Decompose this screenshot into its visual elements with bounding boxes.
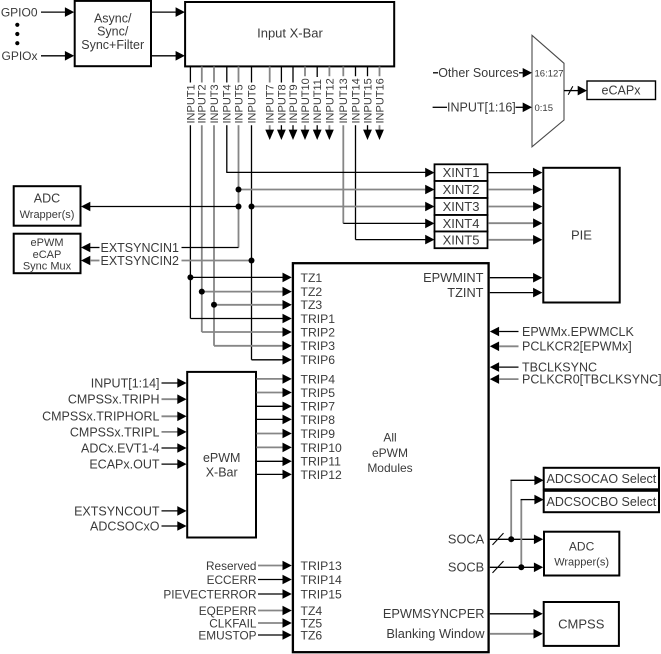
- pin label TZ4 inside ePWM box: [301, 604, 323, 618]
- svg-text:INPUT11: INPUT11: [312, 79, 324, 123]
- box eCAPx: [587, 81, 656, 100]
- svg-text:EXTSYNCIN2: EXTSYNCIN2: [101, 254, 180, 268]
- box ePWM/eCAP Sync Mux: [14, 234, 81, 274]
- svg-text:GPIOx: GPIOx: [1, 49, 37, 63]
- wire PIEVECTERROR into ePWM box: [163, 587, 291, 601]
- pin label SOCA: [448, 532, 485, 547]
- wire EPWMSYNCPER to CMPSS: [490, 609, 543, 619]
- wire ADC wrapper trigger from INPUT5: [81, 202, 239, 212]
- wire INPUT15 stub with down arrow: [362, 67, 374, 141]
- pin label TRIP10 inside ePWM box: [301, 441, 343, 455]
- node junction INPUT5/ADC trigger: [236, 204, 242, 210]
- svg-text:XINT5: XINT5: [443, 232, 480, 247]
- wire INPUT5 to XINT2: [239, 185, 435, 195]
- box ADCSOCBO Select: [544, 491, 659, 512]
- svg-text:INPUT6: INPUT6: [246, 84, 258, 123]
- svg-text:Async/: Async/: [94, 12, 132, 26]
- wire INPUT3 vertical from Input X-Bar: [209, 67, 221, 346]
- svg-text:EPWMSYNCPER: EPWMSYNCPER: [383, 606, 485, 621]
- wire TRIP1 from INPUT1: [190, 314, 291, 324]
- svg-text:X-Bar: X-Bar: [206, 466, 238, 480]
- svg-text:CMPSS: CMPSS: [558, 616, 605, 631]
- wire CMPSSx.TRIPHORL into ePWM X-Bar: [42, 410, 186, 424]
- pin label TZ6 inside ePWM box: [301, 628, 323, 642]
- svg-text:CMPSSx.TRIPHORL: CMPSSx.TRIPHORL: [42, 410, 159, 424]
- svg-text:ePWM: ePWM: [372, 446, 408, 460]
- wire CMPSSx.TRIPL into ePWM X-Bar: [70, 425, 187, 439]
- box ePWM X-Bar: [187, 372, 256, 538]
- svg-text:GPIO0: GPIO0: [1, 5, 38, 19]
- pin label TZ3 inside ePWM box: [301, 298, 323, 312]
- pin label TRIP8 inside ePWM box: [301, 413, 336, 427]
- wire Reserved into ePWM box: [206, 559, 292, 573]
- svg-text:Blanking Window: Blanking Window: [386, 626, 485, 641]
- svg-text:TRIP12: TRIP12: [301, 468, 343, 482]
- box XINT5: [435, 232, 488, 249]
- wire INPUT4 to XINT1: [226, 168, 434, 178]
- svg-text:XINT4: XINT4: [443, 216, 480, 231]
- svg-text:eCAP: eCAP: [33, 249, 62, 261]
- wire INPUT4 vertical from Input X-Bar: [222, 67, 234, 173]
- box XINT4: [435, 215, 488, 232]
- svg-text:ADCSOCAO Select: ADCSOCAO Select: [547, 472, 657, 486]
- svg-text:XINT1: XINT1: [443, 165, 480, 180]
- pin label TRIP6 inside ePWM box: [301, 353, 336, 367]
- box XINT2: [435, 181, 488, 198]
- svg-text:SOCB: SOCB: [448, 560, 484, 575]
- wire XINT3 to PIE: [488, 202, 542, 212]
- node junction INPUT3/TZ3: [211, 302, 217, 308]
- svg-text:INPUT13: INPUT13: [338, 78, 350, 123]
- svg-text:XINT3: XINT3: [443, 199, 480, 214]
- svg-text:ADC: ADC: [34, 192, 60, 206]
- svg-text:INPUT10: INPUT10: [300, 78, 312, 123]
- wire EQEPERR into ePWM box: [199, 604, 292, 618]
- svg-text:TRIP7: TRIP7: [301, 400, 336, 414]
- wire TZ1 from INPUT1: [190, 273, 291, 283]
- pin label Blanking Window: [386, 626, 485, 641]
- box ADC Wrapper(s) left: [14, 186, 81, 226]
- pin label TRIP13 inside ePWM box: [301, 559, 343, 573]
- wire INPUT2 vertical from Input X-Bar: [197, 67, 209, 333]
- svg-text:TRIP1: TRIP1: [301, 312, 336, 326]
- svg-text:TRIP2: TRIP2: [301, 325, 336, 339]
- svg-text:Wrapper(s): Wrapper(s): [20, 209, 75, 221]
- svg-text:EXTSYNCIN1: EXTSYNCIN1: [101, 241, 180, 255]
- svg-text:TRIP8: TRIP8: [301, 413, 336, 427]
- svg-text:PIE: PIE: [571, 227, 592, 242]
- wire INPUT[1:16] into mux: [433, 101, 532, 115]
- svg-text:TRIP5: TRIP5: [301, 386, 336, 400]
- node junction INPUT6/XINT3: [249, 204, 255, 210]
- svg-text:TRIP14: TRIP14: [301, 573, 343, 587]
- svg-text:Sync Mux: Sync Mux: [23, 261, 72, 273]
- wire SOCB to ADC wrapper with bus slash: [490, 561, 543, 573]
- wire TRIP3 from INPUT3: [214, 341, 292, 351]
- svg-text:eCAPx: eCAPx: [602, 84, 642, 98]
- wire INPUT11 stub with down arrow: [312, 67, 324, 141]
- wire TRIP2 from INPUT2: [202, 327, 292, 337]
- node junction INPUT2/TZ2: [199, 289, 205, 295]
- box PIE: [543, 168, 619, 303]
- wire XINT4 to PIE: [488, 218, 542, 228]
- svg-text:TRIP10: TRIP10: [301, 441, 343, 455]
- svg-text:Sync+Filter: Sync+Filter: [81, 38, 144, 52]
- wire INPUT7 stub with down arrow: [265, 67, 277, 141]
- svg-text:INPUT[1:14]: INPUT[1:14]: [91, 376, 160, 390]
- svg-text:Sync/: Sync/: [97, 25, 129, 39]
- wire TZ2 from INPUT2: [202, 287, 292, 297]
- wire INPUT13 to XINT4: [343, 219, 434, 229]
- wire INPUT10 stub with down arrow: [300, 67, 312, 141]
- svg-text:XINT2: XINT2: [443, 182, 480, 197]
- svg-text:INPUT15: INPUT15: [362, 78, 374, 123]
- svg-text:TRIP15: TRIP15: [301, 587, 343, 601]
- wire EXTSYNCOUT into ePWM X-Bar: [74, 504, 187, 518]
- svg-text:EXTSYNCOUT: EXTSYNCOUT: [74, 504, 160, 518]
- node junction INPUT6/EXTSYNCIN2: [249, 258, 255, 264]
- wire ePWM X-Bar to TRIP4: [257, 374, 292, 384]
- wire EXTSYNCIN1 (INPUT5 to Sync Mux): [81, 241, 239, 255]
- svg-text:TZ3: TZ3: [301, 298, 323, 312]
- wire Other Sources into mux: [433, 66, 532, 80]
- wire XINT2 to PIE: [488, 185, 542, 195]
- wire ADCSOCxO into ePWM X-Bar: [90, 519, 187, 533]
- pin label TRIP1 inside ePWM box: [301, 312, 336, 326]
- wire PCLKCR0[TBCLKSYNC] into ePWM box: [490, 373, 661, 387]
- svg-text:TRIP13: TRIP13: [301, 559, 343, 573]
- wire CLKFAIL into ePWM box: [209, 616, 292, 630]
- svg-text:SOCA: SOCA: [448, 532, 485, 547]
- wire TRIP6 from INPUT6: [252, 355, 292, 365]
- svg-text:INPUT16: INPUT16: [374, 78, 386, 123]
- svg-text:PCLKCR2[EPWMx]: PCLKCR2[EPWMx]: [522, 340, 632, 354]
- wire SOCA riser to ADCSOCAO Select: [511, 476, 544, 540]
- svg-text:INPUT2: INPUT2: [197, 84, 209, 123]
- svg-text:INPUT[1:16]: INPUT[1:16]: [447, 101, 516, 115]
- wire INPUT12 stub with down arrow: [324, 67, 336, 141]
- svg-text:TZINT: TZINT: [447, 285, 483, 300]
- svg-text:16:127: 16:127: [535, 68, 564, 79]
- svg-text:EPWMx.EPWMCLK: EPWMx.EPWMCLK: [522, 325, 634, 339]
- pin label TRIP12 inside ePWM box: [301, 468, 343, 482]
- box XINT1: [435, 164, 488, 181]
- wire INPUT13 vertical from Input X-Bar: [338, 67, 350, 224]
- svg-text:EMUSTOP: EMUSTOP: [198, 628, 256, 642]
- svg-text:INPUT14: INPUT14: [350, 78, 362, 123]
- svg-text:INPUT1: INPUT1: [185, 84, 197, 123]
- svg-text:INPUT5: INPUT5: [233, 84, 245, 123]
- pin label TZ5 inside ePWM box: [301, 616, 323, 630]
- svg-text:PIEVECTERROR: PIEVECTERROR: [163, 587, 256, 601]
- wire EXTSYNCIN2 (INPUT6 to Sync Mux): [81, 254, 252, 268]
- svg-text:TRIP3: TRIP3: [301, 339, 336, 353]
- svg-text:ADCx.EVT1-4: ADCx.EVT1-4: [81, 441, 160, 455]
- pin label SOCB: [448, 560, 484, 575]
- wire EMUSTOP into ePWM box: [198, 628, 291, 642]
- svg-text:Input X-Bar: Input X-Bar: [257, 26, 323, 41]
- wire ECCERR into ePWM box: [207, 573, 292, 587]
- ellipsis dots between GPIO0 and GPIOx: [15, 23, 19, 46]
- wire PCLKCR2[EPWMx] into ePWM box: [490, 340, 632, 354]
- svg-text:Wrapper(s): Wrapper(s): [554, 556, 609, 568]
- box ADC Wrapper(s) right: [544, 532, 619, 576]
- wire GPIO0 to Async box: [41, 7, 74, 17]
- wire EPWMx.EPWMCLK into ePWM box: [490, 325, 635, 339]
- pin label EPWMSYNCPER: [383, 606, 485, 621]
- wire ePWM X-Bar to TRIP11: [257, 457, 292, 467]
- pin label TRIP14 inside ePWM box: [301, 573, 343, 587]
- svg-text:Modules: Modules: [367, 461, 412, 475]
- wire TBCLKSYNC into ePWM box: [490, 361, 597, 375]
- wire ePWM X-Bar to TRIP8: [257, 415, 292, 425]
- pin label TRIP5 inside ePWM box: [301, 386, 336, 400]
- wire INPUT1 vertical from Input X-Bar: [185, 67, 197, 319]
- svg-text:TRIP4: TRIP4: [301, 372, 336, 386]
- wire XINT1 to PIE: [488, 168, 542, 178]
- svg-text:CMPSSx.TRIPL: CMPSSx.TRIPL: [70, 425, 160, 439]
- wire ECAPx.OUT into ePWM X-Bar: [89, 458, 186, 472]
- svg-text:INPUT4: INPUT4: [222, 84, 234, 123]
- wire INPUT16 stub with down arrow: [374, 67, 386, 141]
- wire ePWM X-Bar to TRIP12: [257, 470, 292, 480]
- wire INPUT9 stub with down arrow: [288, 67, 300, 141]
- box All ePWM Modules: [293, 263, 489, 652]
- svg-text:Reserved: Reserved: [206, 559, 257, 573]
- svg-text:TZ6: TZ6: [301, 628, 323, 642]
- box XINT3: [435, 198, 488, 215]
- node junction SOCB/ADCSOCBO: [518, 564, 524, 570]
- wire mux output to eCAPx with bus slash: [564, 86, 587, 96]
- wire INPUT5 vertical from Input X-Bar: [233, 67, 245, 248]
- box Input X-Bar: [185, 2, 394, 66]
- svg-text:CMPSSx.TRIPH: CMPSSx.TRIPH: [68, 393, 160, 407]
- wire TZ3 from INPUT3: [214, 300, 292, 310]
- wire ePWM X-Bar to TRIP5: [257, 388, 292, 398]
- node junction SOCA/ADCSOCAO: [508, 536, 514, 542]
- wire XINT5 to PIE: [488, 235, 542, 245]
- wire INPUT[1:14] into ePWM X-Bar: [91, 376, 187, 390]
- pin label TRIP9 inside ePWM box: [301, 427, 336, 441]
- wire SOCA to ADC wrapper with bus slash: [490, 533, 543, 545]
- pin label TZINT: [447, 285, 483, 300]
- svg-text:ECAPx.OUT: ECAPx.OUT: [89, 458, 160, 472]
- svg-text:All: All: [383, 431, 396, 445]
- wire GPIOx to Async box: [41, 51, 74, 61]
- svg-text:ADCSOCBO Select: ADCSOCBO Select: [547, 495, 657, 509]
- pin label TRIP4 inside ePWM box: [301, 372, 336, 386]
- mux trapezoid 16:127/0:15: [532, 35, 564, 147]
- box ADCSOCAO Select: [544, 468, 659, 490]
- svg-text:EPWMINT: EPWMINT: [423, 270, 484, 285]
- svg-text:ePWM: ePWM: [31, 237, 64, 249]
- pin label TRIP3 inside ePWM box: [301, 339, 336, 353]
- wire ADCx.EVT1-4 into ePWM X-Bar: [81, 441, 187, 455]
- box CMPSS: [544, 602, 619, 646]
- wire INPUT14 to XINT5: [356, 235, 435, 245]
- wire Blanking Window to CMPSS: [490, 629, 543, 639]
- svg-text:INPUT7: INPUT7: [265, 84, 277, 123]
- svg-text:PCLKCR0[TBCLKSYNC]: PCLKCR0[TBCLKSYNC]: [522, 373, 661, 387]
- svg-text:INPUT12: INPUT12: [324, 78, 336, 123]
- wire ePWM X-Bar to TRIP10: [257, 443, 292, 453]
- svg-text:ADC: ADC: [569, 540, 595, 554]
- wire INPUT14 vertical from Input X-Bar: [350, 67, 362, 240]
- pin label TRIP11 inside ePWM box: [301, 455, 342, 469]
- svg-text:0:15: 0:15: [535, 103, 554, 114]
- wire TZINT to PIE: [490, 288, 543, 298]
- svg-text:TZ1: TZ1: [301, 271, 323, 285]
- svg-text:INPUT3: INPUT3: [209, 84, 221, 123]
- pin label TZ1 inside ePWM box: [301, 271, 323, 285]
- svg-text:TRIP11: TRIP11: [301, 455, 342, 469]
- node GPIOx input label: [1, 49, 37, 63]
- svg-text:TZ2: TZ2: [301, 285, 323, 299]
- svg-text:ADCSOCxO: ADCSOCxO: [90, 519, 160, 533]
- svg-text:INPUT8: INPUT8: [276, 84, 288, 123]
- wire ePWM X-Bar to TRIP7: [257, 402, 292, 412]
- node junction INPUT5/XINT2: [236, 187, 242, 193]
- wire INPUT6 vertical from Input X-Bar: [246, 67, 258, 360]
- pin label EPWMINT: [423, 270, 484, 285]
- node junction INPUT1/TZ1: [187, 274, 193, 280]
- svg-text:TRIP6: TRIP6: [301, 353, 336, 367]
- pin label TZ2 inside ePWM box: [301, 285, 323, 299]
- box Async/Sync/Sync+Filter: [75, 1, 151, 66]
- wire Async box to Input X-Bar (bottom): [152, 51, 185, 61]
- wire INPUT6 to XINT3: [252, 202, 435, 212]
- wire EPWMINT to PIE: [490, 273, 543, 283]
- wire CMPSSx.TRIPH into ePWM X-Bar: [68, 393, 187, 407]
- node GPIO0 input label: [1, 5, 38, 19]
- pin label TRIP7 inside ePWM box: [301, 400, 336, 414]
- svg-text:TRIP9: TRIP9: [301, 427, 336, 441]
- wire SOCB riser to ADCSOCBO Select: [521, 495, 544, 568]
- pin label TRIP2 inside ePWM box: [301, 325, 336, 339]
- svg-text:INPUT9: INPUT9: [288, 84, 300, 123]
- svg-text:ECCERR: ECCERR: [207, 573, 257, 587]
- pin label TRIP15 inside ePWM box: [301, 587, 343, 601]
- svg-text:ePWM: ePWM: [203, 451, 241, 465]
- wire Async box to Input X-Bar (top): [152, 7, 185, 17]
- svg-text:Other Sources: Other Sources: [438, 66, 519, 80]
- wire INPUT8 stub with down arrow: [276, 67, 288, 141]
- wire ePWM X-Bar to TRIP9: [257, 429, 292, 439]
